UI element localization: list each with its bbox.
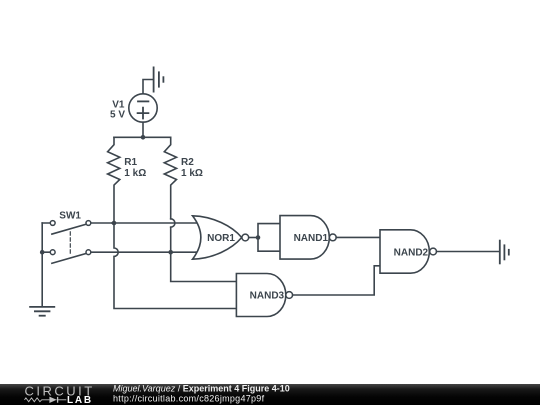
- svg-text:SW1: SW1: [59, 211, 81, 222]
- wire V1 bottom: [142, 122, 144, 137]
- wire switch left rail: [41, 223, 43, 307]
- ground GND1 (top, rotated right): [143, 67, 163, 93]
- NAND gate NAND2: [380, 230, 437, 273]
- node junction NOR1 out: [256, 235, 261, 240]
- svg-text:NOR1: NOR1: [207, 233, 235, 244]
- wire NAND1 input bracket: [258, 224, 280, 252]
- NAND gate NAND1: [280, 216, 336, 260]
- wire net A top (switch to NOR1 input A): [112, 222, 199, 224]
- resistor R1: [108, 137, 120, 223]
- node junction net A / R1: [112, 221, 117, 226]
- svg-text:NAND2: NAND2: [394, 247, 429, 258]
- voltage source V1: [129, 94, 157, 122]
- label R2 1 kOhm: [181, 157, 203, 179]
- wire net B (switch to NOR1 input B): [196, 251, 199, 253]
- label R1 1 kOhm: [124, 157, 146, 179]
- ground GND2 (below switch): [30, 307, 54, 316]
- CircuitLab logo: [25, 384, 95, 405]
- node junction left rail: [40, 250, 45, 255]
- switch SW1 (DPST): [42, 221, 196, 264]
- svg-text:R2: R2: [181, 157, 194, 168]
- NAND gate NAND3: [236, 274, 292, 317]
- wire NAND3 output to NAND2 input B: [293, 266, 380, 295]
- svg-text:NAND1: NAND1: [294, 233, 329, 244]
- svg-text:R1: R1: [124, 157, 137, 168]
- wire NAND1 output to NAND2 input A: [336, 236, 380, 238]
- wire NAND2 output: [437, 251, 500, 253]
- wire top horizontal: [114, 136, 171, 138]
- svg-text:5 V: 5 V: [110, 109, 125, 120]
- node junction net B / R2: [168, 250, 173, 255]
- svg-text:1 kΩ: 1 kΩ: [124, 168, 146, 179]
- svg-text:NAND3: NAND3: [250, 291, 285, 302]
- svg-text:1 kΩ: 1 kΩ: [181, 168, 203, 179]
- wire net B vertical down to NAND3 input A: [171, 252, 237, 281]
- wire net A vertical down with hop over net B: [114, 223, 236, 309]
- ground GND3 (right, rotated): [500, 241, 509, 264]
- label V1 5V: [110, 99, 125, 120]
- svg-text:LAB: LAB: [67, 395, 93, 405]
- node junction at V1 bottom: [141, 135, 146, 140]
- footer text: [113, 383, 290, 403]
- svg-text:Miguel.Varquez / Experiment 4: Miguel.Varquez / Experiment 4 Figure 4-1…: [113, 383, 290, 393]
- wire NOR1 output: [249, 237, 258, 239]
- svg-text:http://circuitlab.com/c826jmpg: http://circuitlab.com/c826jmpg47p9f: [113, 394, 265, 404]
- resistor R2: [164, 137, 176, 252]
- op NOR gate NOR1: [193, 216, 249, 259]
